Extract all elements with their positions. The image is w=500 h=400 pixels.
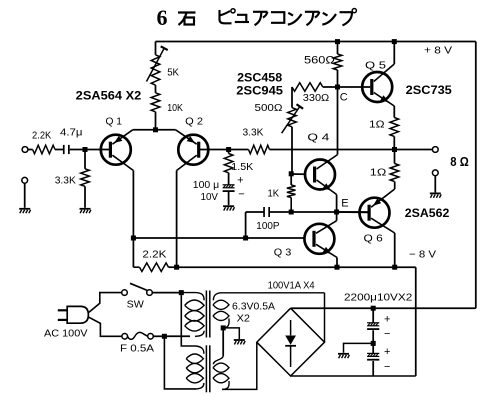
node Q6 collector rail junction (392, 265, 397, 270)
wire C to Q4 collector (337, 87, 339, 155)
wire between caps (372, 330, 374, 353)
wire Q4 emitter to E node (336, 195, 338, 213)
wire center tap to T2 secondary (222, 328, 224, 356)
label 1.5K (231, 161, 253, 173)
wire 330 to 500 pot (291, 87, 293, 108)
label 2SA564 X2 (76, 91, 142, 103)
wire Q5 emitter to 1ohm (393, 106, 395, 118)
wire E-line left lead (246, 211, 264, 213)
wire 500 pot to Q4 base node (291, 127, 293, 174)
svg-text:6: 6 (157, 5, 168, 30)
fuse element (128, 332, 148, 339)
svg-text:2SC458: 2SC458 (237, 73, 283, 85)
svg-text:10K: 10K (167, 102, 183, 114)
svg-text:+: + (384, 346, 390, 358)
AC plug body (58, 306, 89, 323)
wire cap column bottom (372, 361, 374, 376)
wire Q6 collector to rail (394, 233, 396, 267)
wire Q5 base (338, 86, 371, 88)
node output junction (392, 147, 397, 152)
svg-text:−: − (384, 361, 390, 373)
wire output cold to ground (434, 176, 436, 193)
label Q6 (364, 233, 383, 245)
label c1 plus (384, 313, 390, 325)
wire SW junction to T2 primary (181, 293, 196, 346)
wire Q1-collector to 2.2K (133, 238, 139, 267)
label 2.2K fb (142, 249, 166, 261)
svg-text:2200μ10VX2: 2200μ10VX2 (344, 292, 412, 304)
resistor 1 ohm (upper) (390, 118, 399, 137)
label 100V1A X4 (268, 280, 315, 292)
label 6.3V0.5A (232, 301, 275, 313)
wire Q3 emitter to rail (336, 258, 338, 268)
svg-text:100P: 100P (256, 220, 279, 232)
label 3.3K fb (243, 127, 264, 139)
wire center tap to ground (223, 328, 239, 339)
svg-text:X2: X2 (237, 313, 251, 325)
output terminal 8 ohm cold (432, 170, 438, 176)
wire plug to switch (89, 293, 122, 313)
potentiometer 500 ohm (282, 104, 304, 133)
wire 3.3K to ground (84, 186, 86, 208)
output terminal 8 ohm hot (432, 147, 438, 153)
node E (334, 210, 339, 215)
wire 1K to Q4 base node (290, 174, 292, 212)
node cap midpoint (371, 341, 376, 346)
node Q1 collector junction (131, 236, 136, 241)
node cap positive junction (371, 306, 376, 311)
svg-text:2SC945: 2SC945 (236, 86, 283, 98)
svg-text:500Ω: 500Ω (255, 102, 283, 114)
node 1.5K branch junction (226, 147, 231, 152)
label SW (127, 299, 144, 311)
wire Q4 base (291, 173, 305, 175)
capacitor 2200u upper (367, 323, 379, 330)
ground (output) (430, 193, 441, 198)
wire input to R 2.2K (28, 149, 32, 151)
svg-text:2SC735: 2SC735 (406, 85, 453, 97)
wire +8V to bridge positive (291, 307, 476, 309)
wire 560 to node C (337, 70, 339, 87)
resistor 2.2K (to -8V) (140, 263, 169, 272)
transformer T2 core (206, 345, 209, 392)
transformer T1 core (206, 291, 209, 338)
node Q3 emitter rail junction (335, 265, 340, 270)
transistor Q2 (2SA564 PNP) (176, 130, 209, 171)
label 1ohm lower (370, 167, 387, 179)
wire rail to 560 (337, 42, 339, 55)
capacitor 100u 10V (polarized) (223, 185, 235, 192)
fuse F terminal left (122, 334, 128, 340)
node 1K bottom junction (289, 210, 294, 215)
label 2200u10VX2 (344, 292, 412, 304)
svg-text:1Ω: 1Ω (370, 167, 387, 179)
svg-text:1K: 1K (268, 188, 280, 200)
svg-text:SW: SW (127, 299, 144, 311)
label 3.3K (55, 175, 76, 187)
svg-text:6.3V0.5A: 6.3V0.5A (232, 301, 275, 313)
node fuse junction (162, 334, 167, 339)
wire -8V rail to bridge negative (291, 267, 416, 376)
wire Q1-Q2 emitter rail (133, 129, 176, 131)
svg-text:2.2K: 2.2K (32, 130, 51, 142)
svg-text:2SA562: 2SA562 (405, 208, 450, 220)
switch SW terminal left (122, 290, 128, 296)
label c1 minus (384, 328, 390, 340)
label Q2 (185, 116, 203, 128)
transistor Q4 (2SC driver NPN) (305, 155, 338, 195)
wire fuse junction to T1 primary bottom (164, 335, 190, 337)
svg-text:100V1A X4: 100V1A X4 (268, 280, 315, 292)
svg-text:5K: 5K (167, 67, 179, 79)
ground (input bias) (80, 208, 91, 213)
transformer T2 secondary winding (213, 356, 229, 390)
label 2SC735 (406, 85, 453, 97)
resistor 3.3K (feedback) (249, 145, 270, 154)
wire 2.2K to C 4.7u (55, 149, 64, 151)
label 10K (167, 102, 183, 114)
label 2SC945 (236, 86, 283, 98)
svg-text:100 μ: 100 μ (193, 179, 219, 191)
label 5K (167, 67, 179, 79)
wire main to 1.5K (228, 150, 230, 154)
svg-text:4.7μ: 4.7μ (60, 127, 83, 139)
svg-text:Q 4: Q 4 (307, 132, 329, 144)
svg-text:+: + (237, 175, 243, 187)
wire Q1 collector drop (132, 171, 134, 239)
capacitor 4.7u (input coupling) (63, 145, 70, 154)
wire 3.3K branch upper (84, 150, 86, 169)
wire Q2 collector drop (176, 171, 178, 268)
wire 3.3K to output node (270, 149, 395, 151)
svg-text:1Ω: 1Ω (369, 119, 385, 131)
ground (center tap) (234, 339, 245, 344)
wire secondary top to bridge AC1 (222, 293, 325, 342)
label c2 minus (384, 361, 390, 373)
fuse F terminal right (148, 334, 154, 340)
wire Q2 base to 3.3K fb (200, 149, 249, 151)
wire Q6 base (337, 211, 368, 213)
ground (100u) (223, 205, 234, 210)
resistor 1K (287, 185, 296, 198)
svg-text:330Ω: 330Ω (303, 92, 330, 104)
label 100u minus (238, 189, 244, 201)
capacitor 2200u lower (367, 353, 379, 360)
svg-text:AC 100V: AC 100V (44, 328, 88, 340)
label AC 100V (44, 328, 88, 340)
wire Q3 collector to E (336, 212, 338, 221)
resistor 2.2K (input series) (33, 145, 55, 154)
transistor Q6 (2SA562 PNP) (360, 189, 395, 233)
resistor 330 ohm (292, 83, 323, 92)
svg-text:1.5K: 1.5K (231, 161, 253, 173)
wire 10K to 5K (155, 85, 157, 93)
label Q4 (307, 132, 329, 144)
svg-text:560Ω: 560Ω (304, 55, 335, 67)
label E (341, 198, 348, 210)
wire cap midpoint to ground (344, 343, 374, 352)
svg-text:C: C (340, 92, 348, 104)
svg-text:E: E (341, 198, 348, 210)
label 1K (268, 188, 280, 200)
wire 100P branch vertical (245, 212, 247, 238)
label 8ohm (450, 155, 469, 169)
label F 0.5A (120, 343, 154, 355)
svg-text:Q 2: Q 2 (185, 116, 203, 128)
wire output node to 1ohm lower (394, 150, 396, 164)
wire C node to 330 (323, 86, 338, 88)
label 100u (193, 179, 219, 191)
wire +8V top rail (156, 41, 476, 43)
label 10V (201, 191, 219, 203)
resistor 10K (151, 93, 160, 112)
svg-text:3.3K: 3.3K (55, 175, 76, 187)
node center tap (221, 325, 226, 330)
transistor Q5 (2SC735 NPN) (362, 64, 394, 106)
svg-text:−: − (384, 328, 390, 340)
node 560 top junction (335, 39, 340, 44)
transformer T2 primary winding (186, 346, 204, 389)
node input bias junction (83, 147, 88, 152)
node Q3 base junction (243, 236, 248, 241)
label -8V (409, 249, 436, 261)
switch SW lever (130, 283, 147, 290)
svg-text:F 0.5A: F 0.5A (120, 343, 154, 355)
label 4.7u (60, 127, 83, 139)
wire J2 to ground (24, 183, 26, 207)
ground (cap midpoint) (338, 353, 349, 358)
svg-text:8 Ω: 8 Ω (450, 155, 469, 169)
label Q3 (274, 247, 292, 259)
label Q1 (106, 116, 123, 128)
svg-text:Q 5: Q 5 (365, 60, 386, 72)
svg-text:Q 6: Q 6 (364, 233, 383, 245)
resistor 1 ohm (lower) (390, 164, 399, 182)
bridge rectifier 100V1A X4 (diode bridge) (257, 308, 325, 376)
label Q5 (365, 60, 386, 72)
wire emitters to 10K (155, 112, 157, 130)
title text: 6-ishi pure-con-amp (157, 5, 357, 30)
node Q2 collector to rail (174, 265, 179, 270)
node emitter junction (153, 127, 158, 132)
potentiometer 5K (147, 46, 168, 85)
transformer T1 secondary winding and wire to bridge AC1 (213, 293, 325, 328)
wire Q3 base line (133, 237, 305, 239)
wire Q5 collector to rail (393, 42, 395, 65)
resistor 560 ohm (333, 54, 342, 70)
svg-text:2SA564 X2: 2SA564 X2 (76, 91, 142, 103)
wire -8V rail (177, 266, 416, 268)
svg-text:Q 1: Q 1 (106, 116, 123, 128)
svg-text:− 8 V: − 8 V (409, 249, 436, 261)
wire plug to fuse (89, 317, 122, 336)
svg-text:+: + (384, 313, 390, 325)
label 1ohm upper (369, 119, 385, 131)
label 560ohm (304, 55, 335, 67)
wire output node to terminal (395, 149, 433, 151)
wire 2.2K to rail node (169, 266, 177, 268)
label 330ohm (303, 92, 330, 104)
wire 100u to ground (228, 192, 230, 205)
wire 100P to E node (269, 211, 367, 213)
wire 5K to +8V rail (155, 42, 157, 55)
node Q5 collector rail junction (392, 39, 397, 44)
label 2.2K (32, 130, 51, 142)
transistor Q3 (2SC945 NPN) (304, 221, 337, 258)
label 2SA562 (405, 208, 450, 220)
label 2SC458 (237, 73, 283, 85)
wire +8V right edge drop (475, 42, 477, 309)
input terminal J2 (cold) (22, 177, 28, 183)
label 500ohm (255, 102, 283, 114)
label 100P (256, 220, 279, 232)
capacitor 100P (263, 207, 270, 217)
svg-text:Q 3: Q 3 (274, 247, 292, 259)
transformer T1 primary winding (181, 293, 204, 337)
wire fuse to primary junction (153, 335, 164, 337)
label +8V (424, 45, 452, 57)
wire T2 secondary bottom to bridge AC2 (222, 342, 257, 389)
node Q4 base junction (289, 171, 294, 176)
svg-text:3.3K: 3.3K (243, 127, 264, 139)
switch SW terminal right (147, 290, 153, 296)
input terminal J1 (22, 147, 28, 153)
svg-text:+ 8 V: + 8 V (424, 45, 452, 57)
wire 4.7u to Q1 base (70, 149, 112, 151)
svg-text:−: − (238, 189, 244, 201)
wire switch to transformer (152, 292, 181, 294)
resistor 3.3K (input bias) (81, 169, 90, 187)
wire T2 primary bottom to fuse junction (164, 336, 196, 389)
label c2 plus (384, 346, 390, 358)
wire cap column top (372, 308, 374, 322)
label C (340, 92, 348, 104)
wire 1ohm to output node (393, 136, 395, 149)
wire 1.5K to 100u (228, 173, 230, 185)
svg-text:10V: 10V (201, 191, 219, 203)
label X2 (237, 313, 251, 325)
node SW junction (179, 290, 184, 295)
label 100u plus (237, 175, 243, 187)
svg-text:2.2K: 2.2K (142, 249, 166, 261)
node C (335, 85, 340, 90)
resistor 1.5K (224, 154, 233, 173)
wire 1ohm lower to Q6 emitter (394, 182, 396, 190)
ground (input cold) (19, 208, 30, 213)
transistor Q1 (2SA564 PNP) (101, 130, 134, 171)
